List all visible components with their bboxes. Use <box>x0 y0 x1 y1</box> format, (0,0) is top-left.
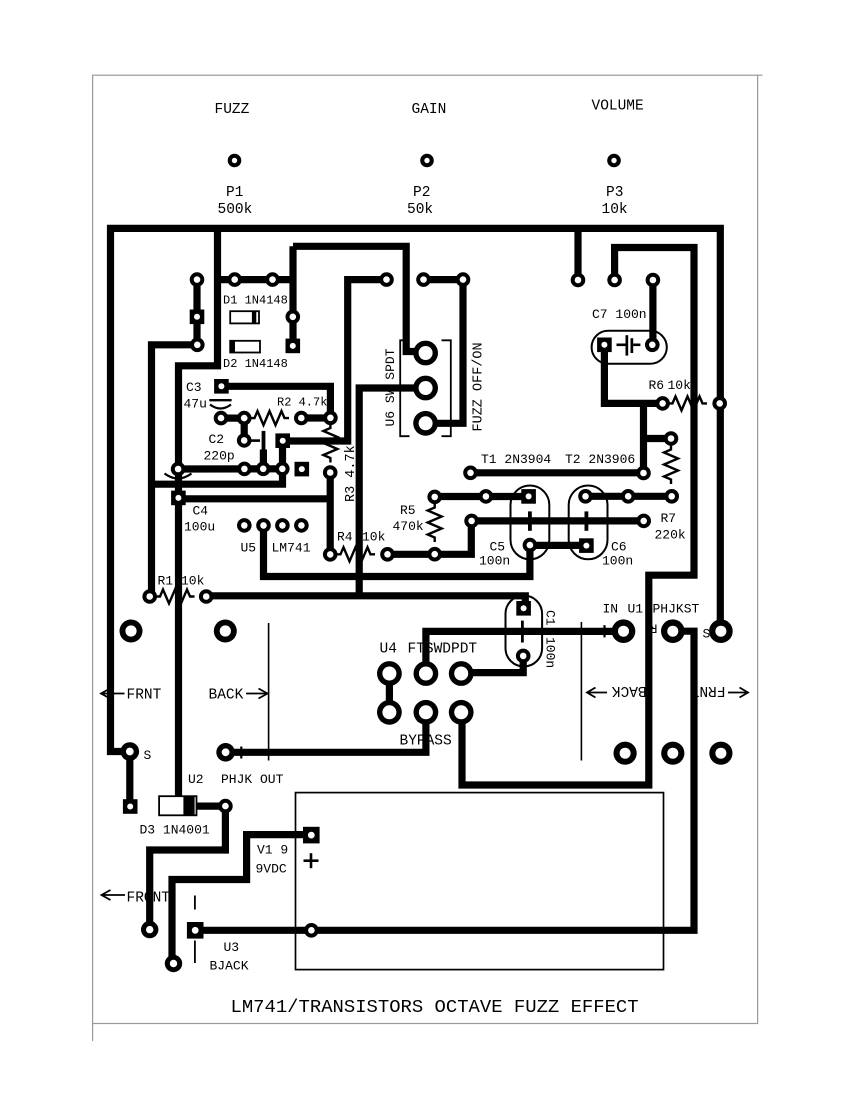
arrow BACK mirrored left <box>587 688 607 698</box>
pad T2 ring top <box>578 489 593 504</box>
wire C1 ring pad to footswitch right-top pad <box>461 656 523 673</box>
resistor R7 zigzag vertical <box>664 445 678 484</box>
wire P3 wiper long route to footswitch right top pad <box>462 248 694 786</box>
wire C7 top pad down to C7 ring pad <box>649 280 656 345</box>
svg-text:S: S <box>703 627 711 642</box>
svg-text:LM741/TRANSISTORS OCTAVE FUZZ: LM741/TRANSISTORS OCTAVE FUZZ EFFECT <box>231 996 639 1018</box>
pad C2 top right / R2 left <box>237 411 252 426</box>
pad R4 right <box>380 547 395 562</box>
svg-text:10k: 10k <box>668 378 692 393</box>
svg-text:FRNT: FRNT <box>690 682 725 698</box>
wire row T2 ring to R7 bottom pad <box>586 493 672 500</box>
pad free right <box>214 620 237 643</box>
svg-text:BJACK: BJACK <box>210 959 249 974</box>
svg-text:S: S <box>144 748 152 763</box>
pad C1 ring <box>516 649 531 664</box>
svg-text:U2: U2 <box>188 772 204 787</box>
wire transistor middle row T1-T2 crosses <box>472 517 644 524</box>
THIN PARTS <box>195 340 664 969</box>
pad U2 OUT <box>216 743 235 762</box>
pad U1 IN big <box>612 619 636 643</box>
resistor R3 zigzag vertical <box>323 424 337 463</box>
svg-text:C5: C5 <box>490 540 506 555</box>
svg-text:U3: U3 <box>224 940 240 955</box>
pad U5 pin1 <box>237 518 252 533</box>
transistor T1 middle pin cross <box>528 511 532 530</box>
pad R7 top <box>664 431 679 446</box>
pad battery minus <box>304 923 319 938</box>
svg-text:C1: C1 <box>543 610 558 626</box>
pad U1 row2 c <box>709 742 732 765</box>
wire R5 top pad row to T1 square pad <box>435 493 529 500</box>
pad R6 left <box>655 396 670 411</box>
pad row469 b <box>237 462 252 477</box>
pad U1 R big <box>661 619 685 643</box>
wire D3 cathode to pad then route to front jack pad <box>150 806 226 930</box>
svg-text:100n: 100n <box>602 554 633 569</box>
T tick at IN pad <box>603 625 605 637</box>
svg-text:LM741: LM741 <box>272 541 311 556</box>
pad row469 d <box>275 462 290 477</box>
wire C2 chain down <box>241 418 248 440</box>
pad R5 bottom <box>427 547 442 562</box>
pad U4 fsw r1c2 <box>414 661 439 686</box>
wire U6 top pads pair <box>424 276 464 283</box>
wire P2 leg <box>574 228 581 280</box>
svg-text:R3 4.7k: R3 4.7k <box>344 445 359 502</box>
pad C2 top left <box>214 411 229 426</box>
pad D1 anode rail left <box>227 272 242 287</box>
wire row y469 C4 pad to C2 bottom pads <box>178 465 282 472</box>
pad C4 plus <box>171 462 186 477</box>
wire P1 leg down then left jog to C4/D3 long vertical <box>179 228 218 806</box>
svg-text:U4: U4 <box>380 642 397 658</box>
svg-text:P2: P2 <box>413 185 430 201</box>
pad U6 switch 3 <box>413 411 438 436</box>
square pad C3 <box>214 379 229 394</box>
square pad U2 sleeve <box>123 799 138 814</box>
DIODES <box>159 311 260 815</box>
wire C4 square pad to R3 vertical <box>184 495 330 502</box>
svg-text:V1 9: V1 9 <box>257 843 288 858</box>
battery V1 outline <box>296 793 664 970</box>
border frame <box>93 75 763 1041</box>
pad P3 leg end <box>607 273 622 288</box>
capsule C1 outline <box>506 596 543 667</box>
svg-text:VOLUME: VOLUME <box>592 99 644 115</box>
svg-text:R5: R5 <box>400 503 416 518</box>
arrow FRONT bottom left <box>102 890 126 900</box>
svg-text:50k: 50k <box>407 202 433 218</box>
pad C2 mid <box>237 433 252 448</box>
capsule C7 outline <box>592 331 667 364</box>
svg-text:BACK: BACK <box>611 682 646 698</box>
wire R3 bottom pad to R4 left pad <box>327 473 334 555</box>
diode D2 body <box>230 341 260 353</box>
pad D3 cathode node <box>218 799 233 814</box>
resistor R6 zigzag <box>668 396 707 410</box>
wire branch to R7 top pad <box>644 435 672 442</box>
svg-text:10k: 10k <box>181 574 205 589</box>
pad row496 <box>479 489 494 504</box>
square pad C4 <box>171 491 186 506</box>
wire top horizontal over D1 to U6 pad1 <box>293 246 419 351</box>
square pad C2 right <box>275 433 290 448</box>
U3 jack tick marks <box>194 896 196 910</box>
wire C3 square pad right then down to R2/R3 pad <box>228 386 330 417</box>
square pad D2 right <box>286 339 301 354</box>
capacitor C3 plates <box>209 399 231 401</box>
capacitor C1 plate bar <box>521 621 524 643</box>
pad toprow right <box>636 466 651 481</box>
resistor R5 zigzag vertical <box>428 503 442 542</box>
svg-text:GAIN: GAIN <box>412 102 447 118</box>
svg-text:R: R <box>650 621 658 636</box>
pad row496 right <box>621 489 636 504</box>
svg-text:C6: C6 <box>611 540 627 555</box>
capacitor C4 arc <box>165 474 192 479</box>
svg-text:R6: R6 <box>649 378 665 393</box>
svg-text:BACK: BACK <box>209 688 244 704</box>
wire U2 S pad down to square pad <box>126 752 133 807</box>
svg-text:47u: 47u <box>184 397 207 412</box>
wire U6 pad2 left then long vertical down to R1-C1 trace <box>359 388 420 596</box>
ARROWS <box>101 688 748 901</box>
wire C2 top pad pair <box>221 415 244 422</box>
wire R1 right pad to C1 square pad <box>206 596 525 606</box>
pad midrow left <box>464 514 479 529</box>
svg-text:FUZZ OFF/ON: FUZZ OFF/ON <box>472 342 487 431</box>
square pad battery plus <box>303 827 320 844</box>
square pad D1 left <box>190 310 205 325</box>
pad P2 <box>420 154 434 168</box>
wire C7 square pad down right to R6 left pad <box>604 347 662 403</box>
svg-text:500k: 500k <box>218 202 253 218</box>
pad U4 fsw r2c1 <box>377 700 402 725</box>
pad D1 anode rail right <box>265 272 280 287</box>
svg-text:C3: C3 <box>186 380 202 395</box>
pad U4 fsw r1c3 <box>449 661 474 686</box>
svg-text:10k: 10k <box>602 202 628 218</box>
pad U6 switch 1 <box>413 341 438 366</box>
svg-text:470k: 470k <box>393 519 424 534</box>
wire link square pad to row469 and down-left to x150 vertical <box>151 441 283 485</box>
svg-text:FTSWDPDT: FTSWDPDT <box>408 642 478 658</box>
pad node 386 <box>379 272 394 287</box>
TRACES <box>111 228 721 963</box>
diode D3 body <box>159 796 196 815</box>
pad midrow right <box>636 514 651 529</box>
square pad T1 top <box>521 489 536 504</box>
resistor R2 zigzag <box>250 411 289 425</box>
wire R2 right pad to R3 top pad <box>301 414 330 421</box>
diode D1 body <box>230 311 259 323</box>
wire main top bus P1-P2-P3 with left drop to U2 S pad and right drop to U1 S pad <box>111 228 721 751</box>
wire footswitch mid-top pad to IN pad through C1 <box>426 631 624 672</box>
capacitor C2 lead and plate <box>246 439 260 442</box>
svg-text:U5: U5 <box>241 541 257 556</box>
square pad C7 <box>597 338 612 353</box>
wire C5 ring pad to C6/T2 square pad <box>530 542 587 549</box>
pad U1 row2 b <box>661 742 684 765</box>
resistor R4 zigzag <box>336 547 375 561</box>
svg-text:D2 1N4148: D2 1N4148 <box>223 357 288 371</box>
wire D2 left pad to R1 left vertical <box>152 345 198 597</box>
D3 trace nub into band <box>175 800 185 807</box>
pad row469 c <box>256 462 271 477</box>
svg-text:FRONT: FRONT <box>127 891 171 907</box>
capacitor C7 symbol <box>617 343 626 346</box>
divider line right (BACK/FRNT) <box>580 622 582 761</box>
battery plus sign <box>304 853 319 868</box>
pad R3 top <box>323 411 338 426</box>
svg-text:R2 4.7k: R2 4.7k <box>277 396 327 410</box>
pad C7 top <box>646 273 661 288</box>
pad U4 fsw r2c3 <box>449 700 474 725</box>
pad P3 <box>607 154 621 168</box>
pad R2 right <box>294 411 309 426</box>
svg-text:220k: 220k <box>655 528 686 543</box>
pad U6 top left <box>416 272 431 287</box>
pad free left <box>120 620 143 643</box>
wire C2 plate to row pad <box>260 450 267 469</box>
svg-text:D3 1N4001: D3 1N4001 <box>140 823 210 838</box>
svg-text:P3: P3 <box>606 185 623 201</box>
pad toprow left <box>463 466 478 481</box>
arrow FRNT left <box>101 689 125 699</box>
pad R1 right <box>199 589 214 604</box>
wire U6 pad3 chain up to pad <box>430 280 463 424</box>
square pad isolated <box>295 462 310 477</box>
wire U1 R pad right then down to bottom ground trace to U3 <box>199 631 694 930</box>
wire R4 right pad through R5 bottom pad up to T-row left pad <box>388 521 472 554</box>
wire battery plus route down to U3 side pad <box>172 835 305 964</box>
svg-text:FUZZ: FUZZ <box>215 102 250 118</box>
transistor T2 capsule <box>569 486 608 560</box>
svg-text:R4: R4 <box>337 530 353 545</box>
svg-text:R1: R1 <box>158 574 174 589</box>
wire D1 left pad chain down to D2 left pad <box>193 280 200 345</box>
svg-text:100u: 100u <box>184 520 215 535</box>
square pad C1 <box>516 601 531 616</box>
svg-text:220p: 220p <box>204 449 235 464</box>
pad C7 ring <box>645 338 660 353</box>
svg-text:T1 2N3904: T1 2N3904 <box>481 452 551 467</box>
wire D1 right chain down to D2 square pad <box>289 246 296 346</box>
svg-text:PHJK OUT: PHJK OUT <box>221 772 284 787</box>
svg-text:C2: C2 <box>209 432 225 447</box>
pad U5 pin3 <box>275 518 290 533</box>
wire footswitch left column pair <box>386 674 393 713</box>
pad R7 bottom <box>664 489 679 504</box>
RESISTOR ZIGZAGS <box>156 396 708 603</box>
square pad T2 bottom <box>579 538 594 553</box>
pad R1 left <box>142 589 157 604</box>
wire branch P1 leg to D1 anode pads <box>218 276 294 283</box>
pad R5 top <box>427 490 442 505</box>
T tick at OUT pad <box>240 747 242 759</box>
svg-text:9VDC: 9VDC <box>256 862 287 877</box>
svg-text:U6 SW SPDT: U6 SW SPDT <box>383 348 398 426</box>
pad U4 fsw r1c1 <box>377 661 402 686</box>
svg-text:100n: 100n <box>479 554 510 569</box>
pad R3 bottom <box>323 465 338 480</box>
pad R4 left <box>323 547 338 562</box>
svg-text:R7: R7 <box>661 511 677 526</box>
square pad U3 <box>187 922 204 939</box>
arrow FRNT mirrored right <box>728 688 748 698</box>
pad U5 pin2 <box>256 518 271 533</box>
svg-text:FRNT: FRNT <box>127 688 162 704</box>
CAP SYMBOLS <box>165 331 667 667</box>
wire pad(386)via corner to C2 square pad <box>286 280 387 441</box>
svg-text:D1 1N4148: D1 1N4148 <box>223 294 288 308</box>
svg-text:U1: U1 <box>628 602 644 617</box>
arrow BACK right <box>246 689 268 699</box>
svg-text:PHJKST: PHJKST <box>653 602 700 617</box>
wire top row pads above T1 T2 <box>471 469 644 476</box>
pad P2 leg end <box>571 273 586 288</box>
pad U6 switch 2 <box>413 376 438 401</box>
divider line left (FRNT/BACK) <box>268 623 270 761</box>
switch U6 bracket marks <box>400 340 451 436</box>
resistor R1 zigzag <box>156 590 195 604</box>
svg-text:100n: 100n <box>543 637 558 668</box>
svg-text:T2 2N3906: T2 2N3906 <box>565 452 635 467</box>
pad P1 <box>228 154 242 168</box>
wire LM741 pin2 down right up to C5 ring pad <box>264 525 530 576</box>
pad D1 cathode <box>286 310 301 325</box>
pad U1 S big <box>709 619 733 643</box>
pad D1 top left <box>190 272 205 287</box>
svg-text:BYPASS: BYPASS <box>400 734 452 750</box>
svg-text:C7 100n: C7 100n <box>592 307 647 322</box>
pad D2 left <box>190 338 205 353</box>
transistor T1 capsule <box>511 486 550 560</box>
transistor T2 middle pin cross <box>585 511 589 530</box>
pad U6 top right <box>456 272 471 287</box>
wire C7 drop from R6 trace to top row pad <box>640 403 647 473</box>
pad front jack b <box>165 955 182 972</box>
svg-text:10k: 10k <box>362 530 386 545</box>
pad front jack a <box>141 921 158 938</box>
svg-text:IN: IN <box>603 602 619 617</box>
wire footswitch mid-bottom pad to OUT pad <box>226 712 426 752</box>
pad U5 pin4 <box>294 518 309 533</box>
pad U2 S <box>121 742 140 761</box>
svg-text:P1: P1 <box>226 185 243 201</box>
pad U4 fsw r2c2 <box>414 700 439 725</box>
PADS <box>120 154 733 973</box>
pad T1 ring bottom / C5 <box>523 538 538 553</box>
pad R6 right on bus <box>712 396 727 411</box>
pad U1 row2 a <box>614 742 637 765</box>
svg-text:C4: C4 <box>193 504 209 519</box>
